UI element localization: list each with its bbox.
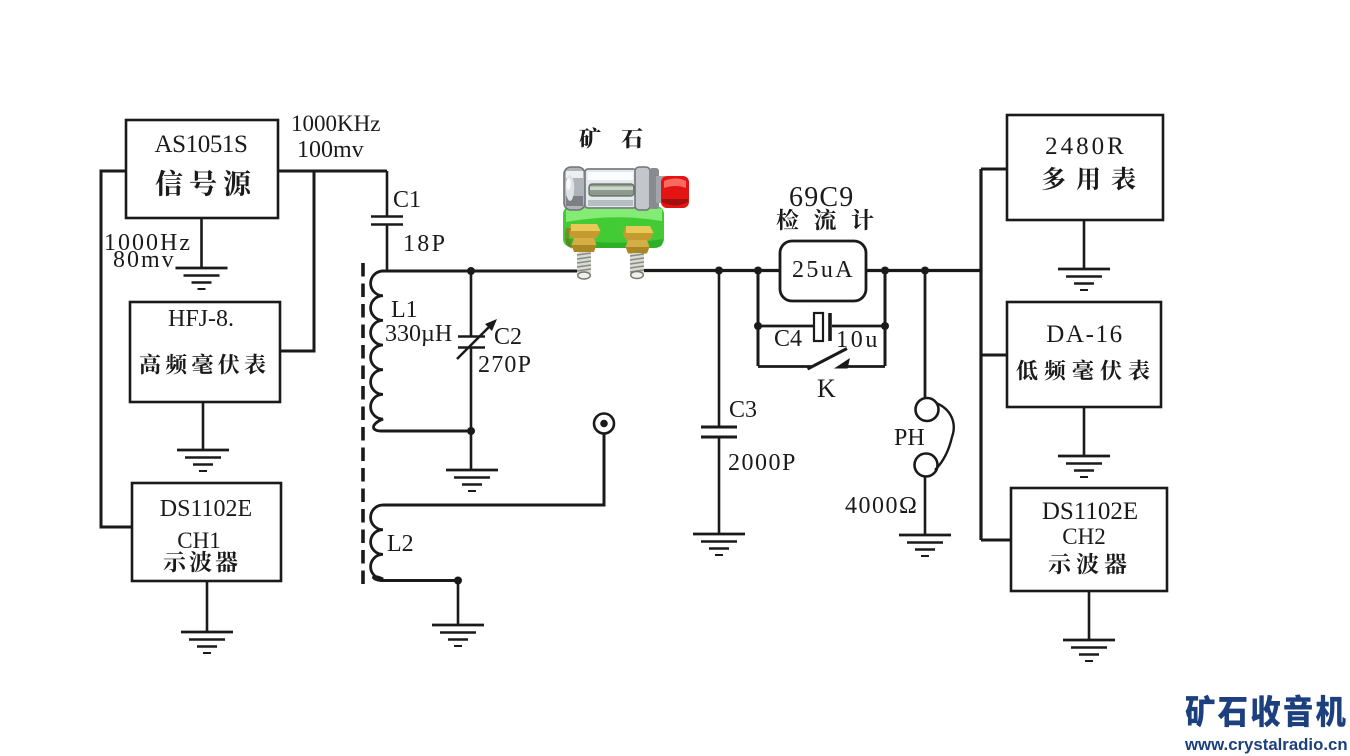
wire C4 right branch (884, 270, 887, 366)
transformer core (dashed) (361, 263, 365, 586)
svg-text:80mv: 80mv (113, 247, 176, 273)
terminal jack J1 outer (594, 414, 614, 434)
ground under DS1102E CH1 (181, 632, 233, 653)
svg-text:2480R: 2480R (1045, 133, 1127, 160)
svg-text:L1: L1 (391, 297, 418, 323)
svg-text:C3: C3 (729, 397, 757, 423)
box U6 DS1102E CH2 oscilloscope (1011, 488, 1167, 591)
wire HFJ-8 ground stem (202, 402, 205, 450)
node L2 ground junction (454, 577, 462, 585)
svg-text:1000KHz: 1000KHz (291, 111, 380, 136)
svg-text:25uA: 25uA (792, 257, 855, 283)
wire AS1051S ground stem (200, 218, 203, 268)
headphone PH top earpiece (916, 398, 939, 421)
wire DA-16 ground stem (1083, 407, 1086, 456)
label XinHaoYuan (signal source) (156, 170, 183, 196)
wire C4 left branch (757, 270, 760, 366)
capacitor C3 plates (701, 426, 737, 429)
inductor L2 winding (371, 505, 383, 581)
svg-text:270P: 270P (478, 352, 532, 378)
svg-text:DS1102E: DS1102E (1042, 498, 1138, 525)
capacitor C2 bottom lead (470, 348, 473, 431)
capacitor C4 right plate (828, 313, 832, 341)
inductor L1 winding (371, 271, 383, 431)
box U3 DS1102E CH1 oscilloscope (132, 483, 281, 581)
wire bus to DA-16 (981, 354, 1007, 357)
wire C3 ground stem (718, 438, 721, 534)
svg-text:CH1: CH1 (177, 528, 220, 553)
ground under C3 (693, 534, 745, 555)
label ShiBoQi (oscilloscope) (164, 551, 186, 572)
wire to C4 left plate (758, 325, 814, 328)
svg-text:DA-16: DA-16 (1046, 321, 1123, 348)
box U5 DA-16 LF millivoltmeter (1007, 302, 1161, 407)
svg-text:www.crystalradio.cn: www.crystalradio.cn (1184, 735, 1348, 754)
label DuoYongBiao (multimeter) (1042, 167, 1065, 190)
wire bus to DS1102E CH2 (981, 539, 1011, 542)
capacitor C1 plates (371, 215, 403, 218)
wire from C4 right plate (832, 325, 885, 328)
svg-text:100mv: 100mv (297, 137, 364, 163)
wire right bus vertical (979, 169, 982, 540)
svg-text:AS1051S: AS1051S (154, 131, 247, 158)
wire HFJ-8 input from signal wire (280, 171, 314, 351)
wire jack to L2 top (383, 434, 604, 506)
capacitor C1 bottom lead (386, 225, 389, 271)
node C4 left top junction (754, 267, 762, 275)
wire bus to 2480R (981, 168, 1007, 171)
svg-text:L2: L2 (387, 531, 414, 557)
svg-text:330µH: 330µH (385, 321, 452, 347)
label GaoPinHaoFuBiao (HF millivoltmeter) (140, 354, 160, 375)
svg-text:2000P: 2000P (728, 450, 797, 476)
ground under L2 (432, 625, 484, 646)
wire CH1 ground stem (206, 581, 209, 632)
wire switch K right contact (846, 365, 885, 368)
svg-text:69C9: 69C9 (789, 182, 854, 213)
capacitor C2 top lead (470, 271, 473, 336)
capacitor C3 top lead (718, 270, 721, 426)
wire L2 ground stem (457, 580, 460, 625)
switch K blade (808, 349, 848, 370)
terminal jack J1 center (600, 420, 608, 428)
switch K arrow (834, 358, 850, 369)
svg-text:4000Ω: 4000Ω (845, 493, 918, 519)
wire L1 top to C2 node (381, 270, 471, 273)
svg-text:18P: 18P (403, 231, 447, 257)
node C4 row right junction (881, 322, 889, 330)
box U1 AS1051S signal source (126, 120, 278, 218)
node L1/C2 top junction (467, 267, 475, 275)
svg-text:DS1102E: DS1102E (160, 496, 252, 522)
wire crystal detector to meter (641, 269, 780, 272)
ground under 2480R (1058, 269, 1110, 290)
label JianLiuJi (galvanometer) (777, 209, 799, 231)
label ShiBoQi CH2 (oscilloscope) (1049, 553, 1071, 574)
wire C2 ground stem (470, 431, 473, 470)
wire resonant node to crystal detector (471, 270, 580, 273)
node PH junction (921, 267, 929, 275)
node C3 junction (715, 267, 723, 275)
watermark KuangShiShouYinJi logo (1186, 695, 1215, 728)
wire 2480R ground stem (1083, 220, 1086, 269)
capacitor C1 top lead (386, 171, 389, 216)
svg-text:PH: PH (894, 425, 925, 451)
svg-text:CH2: CH2 (1062, 524, 1105, 549)
headphone PH headband (935, 403, 954, 470)
node C4 right top junction (881, 267, 889, 275)
capacitor C2 arrow (variable) (457, 326, 490, 359)
ground under DS1102E CH2 (1063, 640, 1115, 661)
wire L1 bottom to C2 node (380, 430, 471, 433)
ground under DA-16 (1058, 456, 1110, 477)
label KuangShi (crystal) (579, 127, 600, 148)
diode D1 crystal detector (photo) (563, 167, 689, 279)
node L1/C2 bottom junction (467, 427, 475, 435)
headphone PH bottom earpiece (915, 454, 938, 477)
svg-text:C1: C1 (393, 187, 421, 213)
wire switch K left contact (758, 365, 812, 368)
wire PH ground stem (924, 476, 927, 535)
label DiPinHaoFuBiao (LF millivoltmeter) (1016, 360, 1037, 381)
node C4 row left junction (754, 322, 762, 330)
ground under HFJ-8 (177, 450, 229, 471)
svg-text:C4: C4 (774, 326, 802, 352)
wire L2 bottom to ground node (380, 579, 458, 582)
ground under PH (899, 535, 951, 556)
wire PH branch (924, 270, 927, 398)
meter M1 25uA body (780, 241, 866, 301)
wire AS1051S output to C1 (278, 170, 387, 173)
ground under C2 (446, 470, 498, 491)
capacitor C2 plates (458, 335, 485, 338)
box U2 HFJ-8 HF millivoltmeter (130, 302, 280, 402)
wire meter to right bus (866, 269, 981, 272)
ground under AS1051S (176, 268, 228, 289)
svg-text:C2: C2 (494, 324, 522, 350)
wire CH2 ground stem (1088, 591, 1091, 640)
capacitor C4 left plate (hollow) (814, 313, 823, 341)
svg-text:HFJ-8.: HFJ-8. (168, 306, 234, 332)
box U4 2480R multimeter (1007, 115, 1163, 220)
svg-text:K: K (817, 374, 836, 403)
wire AS1051S left to DS1102E-CH1 (101, 171, 132, 527)
